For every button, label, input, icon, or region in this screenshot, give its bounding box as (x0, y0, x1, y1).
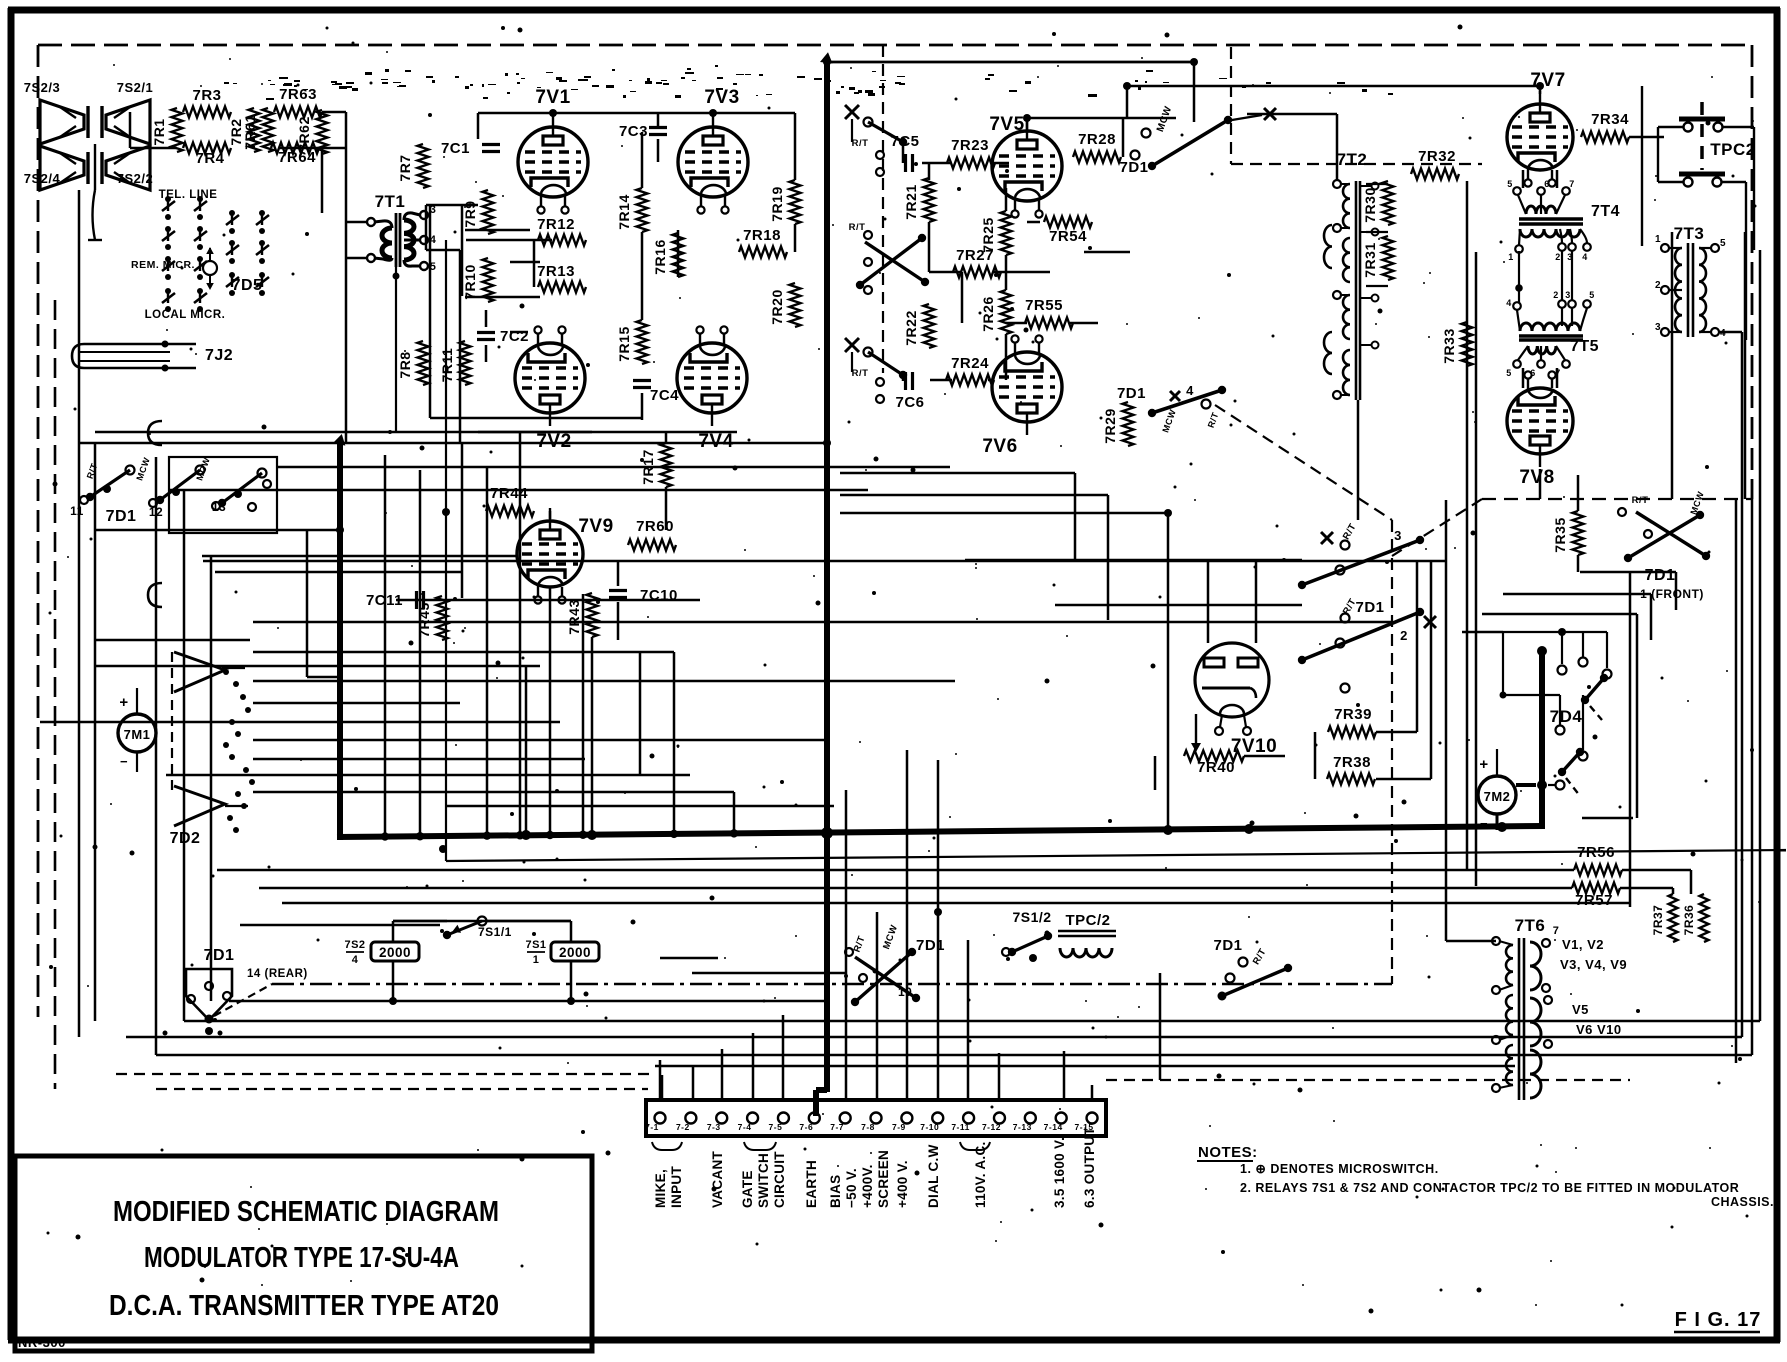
svg-text:7-4: 7-4 (738, 1122, 752, 1132)
svg-text:+: + (1479, 756, 1488, 773)
svg-text:7V8: 7V8 (1519, 467, 1554, 488)
svg-text:7D1: 7D1 (1213, 937, 1242, 954)
svg-text:7T1: 7T1 (375, 192, 406, 211)
svg-text:7T5: 7T5 (1570, 338, 1599, 355)
junction bus d (1163, 825, 1173, 835)
svg-text:7-13: 7-13 (1013, 1122, 1032, 1132)
note 1 (1240, 1162, 1439, 1176)
svg-text:1: 1 (1508, 252, 1514, 262)
dashed vert right-center (1391, 520, 1393, 984)
svg-text:110V. A.C.: 110V. A.C. (973, 1141, 988, 1208)
svg-text:+400 V.: +400 V. (895, 1160, 910, 1208)
capacitor 7C6 (895, 372, 924, 411)
svg-text:4: 4 (1506, 298, 1512, 308)
svg-text:4: 4 (1582, 252, 1588, 262)
svg-text:7-5: 7-5 (769, 1122, 783, 1132)
resistor 7R18 (739, 227, 787, 258)
svg-text:6: 6 (1530, 368, 1536, 378)
resistor 7R56 (1574, 844, 1622, 876)
svg-text:VACANT: VACANT (710, 1151, 725, 1208)
svg-text:7S2/3: 7S2/3 (24, 80, 60, 95)
svg-text:SWITCH: SWITCH (756, 1153, 771, 1208)
terminal labels (653, 1127, 1097, 1208)
svg-text:5: 5 (1589, 290, 1595, 300)
resistor 7R32 (1411, 148, 1459, 180)
capacitor 7C1 (441, 140, 500, 157)
svg-text:NOTES:: NOTES: (1198, 1144, 1258, 1161)
double-diode valve 7V10 (1195, 643, 1277, 757)
svg-text:F I G. 17: F I G. 17 (1675, 1309, 1762, 1331)
svg-text:7V2: 7V2 (536, 431, 571, 452)
svg-text:−50 V.: −50 V. (844, 1168, 859, 1208)
resistor 7R7 (397, 144, 429, 188)
resistor 7R61 (242, 108, 274, 152)
svg-text:7R26: 7R26 (980, 296, 996, 331)
triode valve 7V1 (518, 87, 588, 214)
svg-text:4: 4 (352, 954, 359, 966)
meter 7M1 (118, 688, 156, 772)
meter 7M2 (1478, 749, 1516, 831)
svg-text:6: 6 (1544, 179, 1550, 189)
svg-text:7R39: 7R39 (1334, 706, 1372, 723)
svg-text:7R63: 7R63 (279, 86, 317, 103)
triode valve 7V9 (517, 508, 614, 604)
relay contact block 7D5 (131, 189, 269, 321)
resistor 7R13 (537, 263, 586, 293)
svg-text:13: 13 (212, 500, 226, 514)
resistor 7R45 (416, 596, 448, 640)
svg-text:7C3: 7C3 (619, 123, 648, 140)
capacitor 7C3 (619, 123, 667, 140)
svg-text:7D5: 7D5 (232, 277, 263, 294)
svg-text:7T6: 7T6 (1515, 916, 1546, 935)
loudspeakers 7S2 (24, 80, 153, 190)
svg-text:7R16: 7R16 (652, 239, 668, 274)
svg-text:LOCAL MICR.: LOCAL MICR. (145, 309, 226, 321)
svg-text:R/T: R/T (852, 138, 869, 149)
svg-text:7C1: 7C1 (441, 140, 470, 157)
svg-text:7C2: 7C2 (500, 328, 529, 345)
cable loop upper (148, 421, 162, 445)
junction bus b (587, 830, 597, 840)
resistor 7R17 (640, 443, 672, 487)
svg-text:3.5 1600 V.: 3.5 1600 V. (1052, 1137, 1067, 1208)
svg-text:7: 7 (1553, 925, 1560, 937)
svg-text:GATE: GATE (740, 1170, 755, 1208)
resistor 7R2 (228, 108, 260, 152)
svg-text:D.C.A. TRANSMITTER TYPE AT20: D.C.A. TRANSMITTER TYPE AT20 (109, 1290, 499, 1322)
switch 7D1 R/T middle crossing (849, 222, 930, 294)
resistor 7R64 (271, 143, 319, 167)
resistor 7R25 (980, 211, 1012, 255)
resistor 7R63 (274, 86, 322, 118)
switch 7D1 pos10 (845, 923, 945, 1006)
svg-text:V3, V4, V9: V3, V4, V9 (1560, 957, 1627, 972)
junction bus a (521, 830, 531, 840)
resistor 7R19 (769, 180, 801, 224)
resistor 7R27 (953, 247, 1001, 278)
dashed box 7V5 right vert (1230, 47, 1232, 164)
triode valve 7V6 (982, 335, 1062, 457)
resistor 7R39 (1328, 706, 1376, 738)
thick bus right vertical (1537, 646, 1547, 829)
svg-text:2. RELAYS 7S1 & 7S2 AND CON: 2. RELAYS 7S1 & 7S2 AND CONTACTOR TPC/2 … (1240, 1181, 1739, 1195)
svg-text:SCREEN: SCREEN (876, 1150, 891, 1208)
triode valve 7V3 (678, 87, 748, 214)
title line 3 (109, 1290, 499, 1322)
resistor 7R43 (566, 593, 598, 637)
svg-text:7S1/2: 7S1/2 (1012, 909, 1051, 925)
svg-text:7-14: 7-14 (1044, 1122, 1063, 1132)
svg-text:5: 5 (1720, 238, 1726, 249)
svg-text:7-7: 7-7 (830, 1122, 844, 1132)
svg-text:1. ⊕ DENOTES MICROSWITCH.: 1. ⊕ DENOTES MICROSWITCH. (1240, 1162, 1439, 1176)
svg-text:7D1: 7D1 (916, 937, 945, 954)
svg-text:7R34: 7R34 (1591, 111, 1629, 128)
svg-text:7V9: 7V9 (578, 516, 613, 537)
svg-text:7S2/4: 7S2/4 (24, 171, 61, 186)
transformer 7T4 (1507, 179, 1620, 262)
svg-text:7R3: 7R3 (192, 87, 221, 104)
thick bus arrow top (820, 52, 833, 63)
dash-dot wire y984 (272, 983, 1392, 986)
junction bus e (1244, 824, 1254, 834)
svg-text:7R62: 7R62 (296, 116, 312, 151)
svg-text:7R23: 7R23 (951, 137, 989, 154)
svg-text:7J2: 7J2 (205, 347, 233, 364)
dashed wire bottom right (1106, 1079, 1630, 1081)
svg-text:7R30: 7R30 (1362, 187, 1378, 222)
svg-text:7R35: 7R35 (1552, 517, 1568, 552)
svg-text:V5: V5 (1572, 1002, 1589, 1017)
svg-text:7T3: 7T3 (1674, 224, 1705, 243)
svg-text:7D1: 7D1 (106, 508, 137, 525)
svg-text:DIAL C.W: DIAL C.W (926, 1144, 941, 1208)
resistor 7R57 (1572, 883, 1620, 910)
transformer 7T5 (1506, 290, 1599, 378)
resistor 7R31 (1362, 236, 1394, 280)
resistor 7R12 (537, 216, 586, 246)
contactor coil TPC/2 (1058, 912, 1116, 957)
svg-text:+: + (119, 694, 128, 711)
svg-text:7V1: 7V1 (535, 87, 570, 108)
svg-text:7S2/2: 7S2/2 (117, 171, 153, 186)
svg-text:7R20: 7R20 (769, 289, 785, 324)
transformer 7T1 (367, 192, 437, 432)
note 2a (1240, 1181, 1739, 1195)
svg-text:7R61: 7R61 (242, 114, 258, 149)
svg-text:R/T: R/T (1632, 495, 1649, 506)
svg-text:7-12: 7-12 (982, 1122, 1001, 1132)
resistor 7R34 (1581, 111, 1629, 143)
svg-text:7: 7 (1569, 179, 1575, 189)
brace 110v (960, 1142, 990, 1150)
connector 7J2 (72, 341, 233, 372)
svg-text:7V4: 7V4 (698, 431, 733, 452)
svg-text:3: 3 (1394, 528, 1402, 543)
svg-text:7R40: 7R40 (1197, 759, 1235, 776)
resistor 7R22 (903, 304, 935, 348)
svg-text:7T2: 7T2 (1337, 150, 1368, 169)
svg-text:7S1/1: 7S1/1 (478, 925, 512, 939)
svg-text:7D1: 7D1 (1119, 159, 1148, 176)
drawing number NR-300 (18, 1335, 66, 1350)
svg-text:3: 3 (1655, 322, 1661, 333)
svg-text:−: − (1480, 816, 1488, 831)
svg-text:6.3 OUTPUT: 6.3 OUTPUT (1082, 1127, 1097, 1208)
svg-text:2000: 2000 (559, 945, 591, 960)
relay contact 7S1/2 (1002, 909, 1052, 962)
dashed box 7V5 right horiz (1231, 163, 1482, 165)
svg-text:7C6: 7C6 (895, 394, 924, 411)
mode switch 7D1 (11,12,13) (70, 456, 277, 533)
svg-text:V6 V10: V6 V10 (1576, 1022, 1622, 1037)
dashed wire bottom 2 (156, 1088, 648, 1090)
svg-text:+400V.: +400V. (860, 1164, 875, 1208)
dashed boundary diag (1392, 499, 1482, 556)
triode valve 7V4 (677, 326, 747, 452)
triode valve 7V7 (1507, 70, 1573, 187)
dashed chassis boundary left2 (54, 300, 57, 1089)
svg-text:7R54: 7R54 (1049, 228, 1087, 245)
switch 7D1 (1 FRONT) (1618, 490, 1710, 601)
svg-text:7-2: 7-2 (676, 1122, 690, 1132)
wire horizontal runs (40, 62, 1760, 1066)
resistor 7R11 (439, 341, 471, 385)
svg-text:CIRCUIT: CIRCUIT (772, 1151, 787, 1208)
thick bus vertical left (337, 443, 343, 840)
dashed chassis boundary left (37, 45, 40, 1017)
svg-text:V1, V2: V1, V2 (1562, 937, 1604, 952)
resistor 7R15 (616, 320, 648, 364)
switch 7D1 pos4 (1117, 383, 1226, 434)
svg-text:14 (REAR): 14 (REAR) (247, 968, 308, 980)
svg-text:7V6: 7V6 (982, 436, 1017, 457)
transformer 7T2 (1324, 150, 1379, 400)
svg-text:7V3: 7V3 (704, 87, 739, 108)
wire long below bus (442, 240, 1786, 861)
svg-text:MODIFIED SCHEMATIC DIAGRAM: MODIFIED SCHEMATIC DIAGRAM (113, 1196, 499, 1228)
resistor 7R3 (183, 87, 231, 118)
svg-text:CHASSIS.: CHASSIS. (1711, 1195, 1774, 1209)
capacitor 7C11 (366, 591, 424, 609)
svg-text:7R13: 7R13 (537, 263, 575, 280)
resistor 7R54 (1044, 217, 1092, 246)
svg-text:2: 2 (1555, 252, 1561, 262)
resistor 7R26 (980, 290, 1012, 334)
rotary switch 7D2 (170, 646, 255, 847)
resistor 7R35 (1552, 511, 1584, 555)
svg-text:7R43: 7R43 (566, 599, 582, 634)
wire vertical runs (79, 62, 1760, 1100)
svg-text:7R44: 7R44 (490, 485, 528, 502)
dashed boundary right (1751, 45, 1754, 499)
svg-text:7R32: 7R32 (1418, 148, 1456, 165)
svg-text:7R57: 7R57 (1575, 892, 1613, 909)
svg-text:7D1: 7D1 (1117, 385, 1146, 402)
svg-text:7R19: 7R19 (769, 186, 785, 221)
resistor 7R20 (769, 283, 801, 327)
contactor TPC2 (1642, 86, 1756, 340)
dashed wire bottom 1 (116, 1073, 652, 1075)
svg-text:7R8: 7R8 (397, 351, 413, 378)
svg-text:7R1: 7R1 (151, 118, 167, 145)
svg-text:7-11: 7-11 (951, 1122, 970, 1132)
svg-text:7S1: 7S1 (525, 939, 546, 951)
figure label FIG.17 (1674, 1309, 1761, 1332)
resistor 7R10 (462, 258, 494, 302)
svg-text:7R55: 7R55 (1025, 297, 1063, 314)
svg-text:7-10: 7-10 (920, 1122, 939, 1132)
svg-text:INPUT: INPUT (669, 1166, 684, 1208)
svg-text:7D1: 7D1 (1355, 599, 1384, 616)
svg-text:11: 11 (70, 504, 84, 518)
svg-text:7R60: 7R60 (636, 518, 674, 535)
resistor 7R44 (486, 485, 534, 517)
resistor 7R37 (1651, 894, 1678, 942)
transformer 7T6 (1492, 916, 1627, 1100)
svg-text:1: 1 (1655, 234, 1661, 245)
svg-text:EARTH: EARTH (804, 1160, 819, 1208)
switch 7D1 MCW top (1119, 105, 1276, 176)
svg-text:BIAS: BIAS (828, 1175, 843, 1208)
svg-text:7-8: 7-8 (861, 1122, 875, 1132)
resistor 7R14 (616, 188, 648, 232)
svg-text:TPC2: TPC2 (1710, 140, 1755, 159)
svg-text:5: 5 (1507, 179, 1513, 189)
svg-text:2: 2 (1400, 628, 1408, 643)
svg-text:7D1: 7D1 (1645, 567, 1676, 584)
svg-text:7R31: 7R31 (1362, 242, 1378, 277)
junction bus c (821, 827, 833, 839)
svg-text:NR-300: NR-300 (18, 1335, 66, 1350)
resistor 7R33 (1441, 322, 1473, 366)
triode valve 7V2 (515, 326, 585, 452)
relay contact 7S1/1 (443, 917, 512, 940)
contact at 7M2 (1516, 780, 1565, 790)
svg-text:4: 4 (1720, 328, 1726, 339)
triode valve 7V5 (989, 114, 1062, 218)
resistor 7R16 (652, 233, 684, 277)
resistor 7R4 (183, 143, 231, 168)
svg-text:2: 2 (1655, 280, 1661, 291)
svg-text:4: 4 (1186, 383, 1194, 398)
switch 7D1 R/T upper (845, 105, 907, 176)
svg-text:7-3: 7-3 (707, 1122, 721, 1132)
transformer 7T3 (1655, 224, 1726, 339)
capacitor 7C5 (890, 133, 919, 172)
resistor 7R23 (947, 137, 995, 169)
resistor 7R36 (1682, 894, 1709, 942)
svg-text:7D4: 7D4 (1550, 707, 1583, 726)
svg-text:TPC/2: TPC/2 (1065, 912, 1110, 929)
svg-text:10: 10 (898, 985, 912, 999)
title block box (15, 1156, 592, 1351)
resistor 7R8 (397, 341, 429, 385)
title line 1 (113, 1196, 499, 1228)
svg-text:7-6: 7-6 (799, 1122, 813, 1132)
svg-text:7-1: 7-1 (645, 1122, 659, 1132)
svg-text:7R33: 7R33 (1441, 328, 1457, 363)
dashed line 7D1-4 diag (1215, 405, 1392, 520)
resistor 7R60 (628, 518, 676, 551)
capacitor 7C4 (633, 381, 679, 405)
junction bus f (1497, 822, 1507, 832)
svg-text:7V5: 7V5 (989, 114, 1024, 135)
switch 7D1 upper right-centre (1298, 522, 1424, 589)
connector 7D1 14(REAR) (186, 947, 308, 1024)
dashed chassis boundary top (38, 44, 1752, 47)
svg-text:R/T: R/T (852, 368, 869, 379)
svg-text:7R7: 7R7 (397, 154, 413, 181)
svg-text:2: 2 (1553, 290, 1559, 300)
notes heading (1197, 1144, 1258, 1161)
svg-text:2000: 2000 (379, 945, 411, 960)
svg-text:7R10: 7R10 (462, 264, 478, 299)
svg-text:7R38: 7R38 (1333, 754, 1371, 771)
svg-text:R/T: R/T (849, 222, 866, 233)
capacitor 7C2 (477, 328, 529, 345)
thick bus horizontal (337, 826, 1544, 837)
capacitor 7C10 (609, 587, 678, 604)
switch 7D1 R/T lower (845, 338, 907, 403)
svg-text:7M1: 7M1 (124, 727, 151, 742)
resistor 7R21 (903, 178, 935, 222)
wires 7T4-7T5 (1515, 250, 1572, 303)
svg-text:7D1: 7D1 (204, 947, 235, 964)
svg-text:MIKE,: MIKE, (653, 1169, 668, 1208)
relay coil 7S2/4 2000 (344, 939, 419, 966)
svg-text:7R36: 7R36 (1682, 905, 1696, 936)
resistor 7R28 (1073, 131, 1121, 163)
dashed boundary mid vert (882, 45, 884, 373)
svg-text:3: 3 (1565, 290, 1571, 300)
relay 7D4 contacts (1500, 628, 1612, 796)
svg-text:7V7: 7V7 (1530, 70, 1565, 91)
cable loop lower (148, 583, 162, 607)
svg-text:7R21: 7R21 (903, 184, 919, 219)
thick bus vertical center (816, 57, 827, 1116)
svg-text:7R24: 7R24 (951, 355, 989, 372)
brace mike input (652, 1142, 682, 1150)
resistor 7R62 (296, 110, 328, 154)
svg-text:−: − (120, 754, 128, 769)
note 2b (1711, 1195, 1774, 1209)
title line 2 (144, 1242, 459, 1274)
relay coil 7S1/1 2000 (525, 939, 599, 966)
svg-text:7R29: 7R29 (1102, 408, 1118, 443)
svg-text:7S2: 7S2 (344, 939, 365, 951)
svg-text:7C4: 7C4 (650, 387, 679, 404)
svg-text:7-9: 7-9 (892, 1122, 906, 1132)
speaker wires (88, 144, 102, 240)
potentiometer 7R40 (1184, 714, 1244, 776)
brace gate switch (744, 1142, 776, 1150)
svg-text:REM. MICR.: REM. MICR. (131, 259, 195, 271)
thick bus arrow left (333, 434, 345, 446)
svg-text:7S2/1: 7S2/1 (117, 80, 153, 95)
resistor 7R1 (151, 108, 183, 152)
svg-text:7R15: 7R15 (616, 326, 632, 361)
dashed boundary right horiz (1482, 498, 1752, 500)
svg-text:7C10: 7C10 (640, 587, 678, 604)
svg-text:MODULATOR TYPE 17-SU-4A: MODULATOR TYPE 17-SU-4A (144, 1242, 459, 1274)
svg-text:7R22: 7R22 (903, 310, 919, 345)
resistor 7R38 (1327, 754, 1375, 785)
svg-text:7M2: 7M2 (1484, 789, 1511, 804)
svg-text:7R4: 7R4 (195, 150, 224, 167)
resistor 7R55 (1025, 297, 1073, 329)
